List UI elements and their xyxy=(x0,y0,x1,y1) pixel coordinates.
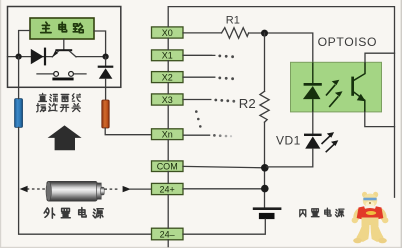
wire arrow to 24+ box xyxy=(130,188,152,190)
bus wire segments between boxes xyxy=(167,38,169,247)
watermark bear xyxy=(352,192,389,244)
terminal box X1 xyxy=(152,50,184,61)
blue terminal bar xyxy=(15,99,23,128)
wire X0 top loop to right side xyxy=(168,7,394,198)
resistor R1 xyxy=(222,28,249,39)
text 外置电源 xyxy=(44,208,103,219)
reed switch contact xyxy=(37,72,86,81)
svg-text:R1: R1 xyxy=(226,14,240,26)
wire 24+ to junction xyxy=(183,188,265,190)
orange terminal bar xyxy=(102,100,109,128)
terminal box 24- xyxy=(152,228,184,240)
opto light arrow 2 xyxy=(329,91,342,107)
wire Xn with fading ellipsis xyxy=(184,134,233,137)
wire R2 down through junctions to battery xyxy=(264,122,266,207)
terminal box X2 xyxy=(152,72,184,83)
svg-text:VD1: VD1 xyxy=(276,134,301,148)
transistor Q (in switch) xyxy=(52,49,76,57)
wire battery negative to 24- xyxy=(183,219,265,234)
photo edge artifact left xyxy=(0,0,1,248)
terminal box X3 xyxy=(152,94,184,105)
wire X1 with ellipsis xyxy=(183,55,234,59)
node 24+ junction xyxy=(261,185,269,193)
svg-text:24+: 24+ xyxy=(160,184,175,194)
photo edge artifact bottom xyxy=(0,247,402,248)
wire from 主电路 bottom to transistor base xyxy=(63,39,65,49)
wire X0 to R1 xyxy=(183,32,222,34)
wire X3 with ellipsis toward R2 xyxy=(183,99,235,103)
wire emitter down to right rail xyxy=(365,112,395,127)
wire R1 to opto LED xyxy=(249,33,313,62)
main wire right segment xyxy=(76,56,106,58)
external battery cylinder xyxy=(46,181,104,201)
wire junction to blue bar xyxy=(18,57,20,99)
svg-text:X1: X1 xyxy=(162,51,173,61)
text 直流两线 xyxy=(39,93,81,101)
main wire left segment xyxy=(8,56,53,58)
svg-text:OPTOISO: OPTOISO xyxy=(318,35,378,49)
wire blue bar down to 24- line xyxy=(19,127,152,234)
terminal box Xn xyxy=(152,129,184,140)
node COM junction xyxy=(261,164,269,172)
main circuit label box 主电路 xyxy=(30,18,94,39)
svg-text:X2: X2 xyxy=(162,72,173,82)
opto phototransistor xyxy=(351,62,365,112)
wire from 主电路 left to main wire xyxy=(19,31,30,54)
svg-text:COM: COM xyxy=(157,162,178,172)
wire junction down to R2 xyxy=(264,33,266,91)
text 内置电源 xyxy=(300,208,344,217)
svg-text:X0: X0 xyxy=(162,28,173,38)
dashed lead right of battery xyxy=(104,188,120,190)
wire collector up to right rail xyxy=(365,53,395,62)
LED VD1 xyxy=(267,112,322,167)
arrowhead pointing right xyxy=(123,186,131,192)
node junction left xyxy=(16,54,22,60)
svg-text:24–: 24– xyxy=(160,230,175,240)
VD1 light arrow 1 xyxy=(322,132,335,144)
opto light arrow 1 xyxy=(326,80,339,96)
battery internal supply plates xyxy=(253,207,282,219)
ellipsis dots between X3 and Xn xyxy=(195,110,202,127)
arrowhead pointing left xyxy=(20,186,28,192)
proximity switch enclosure box xyxy=(8,7,121,88)
VD1 light arrow 2 xyxy=(326,140,339,152)
svg-text:Xn: Xn xyxy=(162,130,173,140)
terminal box 24+ xyxy=(152,183,184,194)
diode D-left (in switch) xyxy=(31,48,46,66)
optocoupler U1 green box xyxy=(291,62,382,112)
svg-text:R2: R2 xyxy=(239,96,256,111)
terminal box X0 xyxy=(152,27,184,38)
wire X2 with ellipsis xyxy=(183,77,234,81)
wire from 主电路 right to main wire xyxy=(94,31,106,54)
dashed lead left of battery xyxy=(22,188,47,190)
resistor R2 xyxy=(260,91,269,122)
wire orange bar to Xn xyxy=(105,128,151,135)
up arrow xyxy=(48,125,82,150)
terminal box COM xyxy=(152,161,184,172)
diode D-right (in switch) xyxy=(98,57,114,100)
photo edge artifact right xyxy=(401,0,402,248)
wire COM to junction xyxy=(183,166,265,167)
node junction right xyxy=(103,54,109,60)
opto LED input xyxy=(303,62,322,112)
text 接近开关 xyxy=(37,104,81,112)
svg-text:X3: X3 xyxy=(162,95,173,105)
node R1/R2 junction xyxy=(261,30,268,37)
